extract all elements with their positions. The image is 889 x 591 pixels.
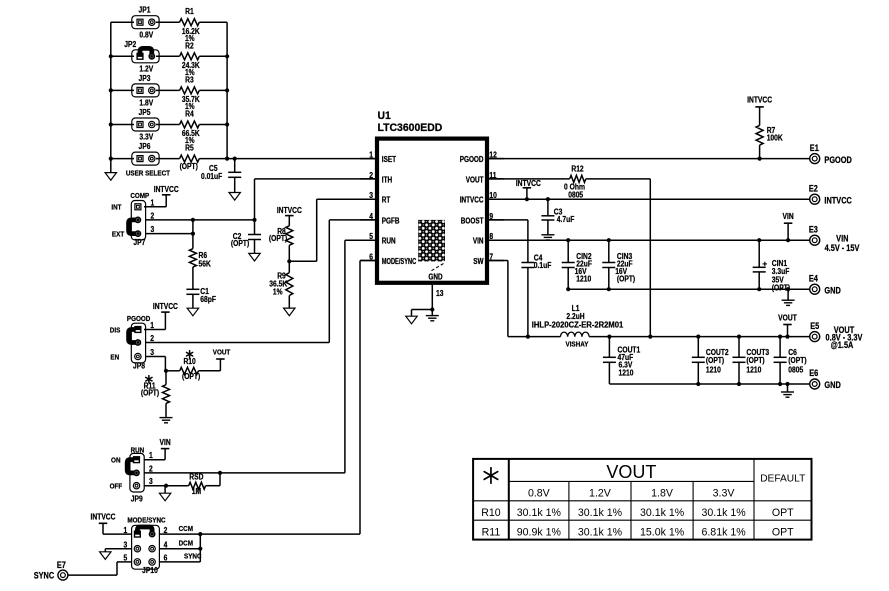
capacitor COUT3 — [738, 337, 740, 358]
svg-text:30.1k 1%: 30.1k 1% — [701, 507, 746, 519]
wire left bus — [110, 22, 112, 165]
wire E7 — [68, 574, 117, 576]
svg-text:RUN: RUN — [131, 447, 145, 455]
jumper JP10 — [132, 525, 160, 569]
svg-text:R10: R10 — [481, 507, 501, 519]
wire BOOST — [487, 219, 528, 221]
svg-text:@1.5A: @1.5A — [831, 340, 854, 350]
svg-text:4.5V - 15V: 4.5V - 15V — [825, 243, 860, 253]
svg-text:MODE/SYNC: MODE/SYNC — [127, 517, 165, 525]
wire JP8 pin2 — [146, 342, 330, 344]
wire PGOOD — [487, 158, 809, 160]
svg-text:0805: 0805 — [568, 190, 583, 200]
svg-text:USER SELECT: USER SELECT — [126, 170, 171, 178]
resistor R5 — [180, 155, 200, 162]
wire JP9 pin3 — [144, 485, 166, 487]
resistor R10 — [166, 370, 180, 372]
wire VOUT drop — [586, 178, 651, 180]
svg-text:VIN: VIN — [473, 237, 484, 246]
svg-text:GND: GND — [824, 381, 840, 391]
ground — [187, 308, 198, 316]
wire JP10 pin1 — [103, 533, 131, 535]
ground — [110, 165, 112, 173]
ground — [431, 310, 433, 316]
svg-text:JP1: JP1 — [139, 5, 151, 15]
svg-text:(OPT): (OPT) — [180, 162, 199, 172]
svg-text:30.1k 1%: 30.1k 1% — [517, 507, 562, 519]
jumper JP7 — [131, 201, 145, 240]
svg-text:RUN: RUN — [382, 237, 396, 246]
svg-text:E2: E2 — [809, 184, 818, 194]
svg-text:OPT: OPT — [772, 526, 794, 538]
ground — [159, 493, 170, 501]
svg-text:IHLP-2020CZ-ER-2R2M01: IHLP-2020CZ-ER-2R2M01 — [532, 320, 624, 329]
wire JP8 pin1 — [144, 329, 165, 331]
svg-text:EN: EN — [110, 354, 119, 362]
svg-text:VOUT: VOUT — [606, 462, 656, 482]
capacitor CIN2 — [567, 240, 569, 262]
svg-text:INTVCC: INTVCC — [153, 301, 179, 311]
svg-text:1.8V: 1.8V — [651, 488, 674, 500]
ground — [787, 384, 789, 392]
svg-text:2: 2 — [151, 211, 155, 221]
svg-text:(OPT): (OPT) — [141, 388, 160, 398]
svg-text:30.1k 1%: 30.1k 1% — [640, 507, 685, 519]
svg-text:1210: 1210 — [576, 274, 591, 284]
svg-text:ISET: ISET — [382, 155, 397, 164]
svg-text:PGOOD: PGOOD — [127, 315, 150, 323]
svg-text:6.81k 1%: 6.81k 1% — [701, 526, 746, 538]
svg-text:68pF: 68pF — [200, 294, 216, 304]
capacitor CIN3 — [608, 240, 610, 262]
svg-text:JP7: JP7 — [133, 238, 145, 248]
resistor R8 — [286, 226, 293, 246]
svg-text:GND: GND — [824, 286, 840, 296]
resistor R11 — [165, 371, 167, 385]
svg-text:1: 1 — [369, 150, 373, 160]
svg-text:1210: 1210 — [746, 365, 761, 375]
wire JP9 pin1 — [144, 459, 165, 461]
svg-text:R12: R12 — [571, 164, 583, 174]
svg-text:2: 2 — [149, 464, 153, 474]
svg-text:U1: U1 — [378, 110, 391, 122]
svg-text:JP6: JP6 — [139, 141, 151, 151]
inductor L1 — [561, 332, 568, 337]
wire SYNC — [159, 561, 200, 563]
svg-text:LTC3600EDD: LTC3600EDD — [378, 122, 443, 134]
svg-text:1.2V: 1.2V — [589, 488, 612, 500]
svg-text:4.7uF: 4.7uF — [557, 214, 575, 224]
svg-text:R4: R4 — [185, 109, 194, 119]
svg-text:3: 3 — [151, 224, 155, 234]
node RT junction — [287, 259, 291, 263]
svg-text:1: 1 — [149, 450, 153, 460]
wire ITH — [255, 178, 378, 180]
jumper JP9 — [130, 453, 144, 492]
svg-text:SW: SW — [473, 257, 484, 266]
svg-text:R11: R11 — [482, 526, 501, 538]
resistor R2 — [180, 53, 200, 60]
svg-text:MODE/SYNC: MODE/SYNC — [382, 258, 416, 266]
svg-text:VOUT: VOUT — [778, 313, 797, 323]
svg-text:15.0k 1%: 15.0k 1% — [640, 526, 685, 538]
svg-text:JP3: JP3 — [139, 73, 151, 83]
wire JP10 pin3 gnd — [105, 548, 131, 550]
wire DCM — [159, 548, 200, 550]
svg-text:PGOOD: PGOOD — [824, 155, 851, 165]
svg-text:RT: RT — [382, 196, 391, 205]
svg-text:0.8V: 0.8V — [528, 488, 551, 500]
wire VOUT row — [589, 336, 809, 338]
svg-text:VIN: VIN — [783, 211, 794, 221]
svg-text:R2: R2 — [185, 41, 194, 51]
svg-text:JP2: JP2 — [124, 40, 136, 50]
resistor R12 — [487, 178, 570, 180]
capacitor COUT2 — [697, 337, 699, 358]
svg-text:0.8V: 0.8V — [139, 30, 153, 40]
svg-text:1: 1 — [151, 198, 155, 208]
wire RUN — [345, 239, 377, 241]
svg-text:30.1k 1%: 30.1k 1% — [578, 507, 623, 519]
svg-text:1M: 1M — [192, 486, 201, 496]
svg-text:VISHAY: VISHAY — [566, 341, 589, 349]
wire SW — [487, 260, 508, 262]
wire JP8 pin3 — [146, 356, 166, 358]
svg-text:1%: 1% — [273, 287, 283, 297]
svg-text:E7: E7 — [57, 561, 66, 571]
svg-text:JP9: JP9 — [131, 494, 143, 504]
power VOUT — [219, 359, 221, 371]
capacitor C5 — [234, 159, 236, 173]
jumper JP6 — [111, 158, 134, 160]
svg-text:(OPT): (OPT) — [617, 274, 636, 284]
svg-text:JP10: JP10 — [142, 566, 158, 576]
svg-text:JP8: JP8 — [133, 361, 145, 371]
resistor R4 — [180, 121, 200, 128]
svg-text:E5: E5 — [810, 321, 819, 331]
resistor R3 — [180, 87, 200, 94]
svg-text:DCM: DCM — [179, 540, 193, 548]
svg-text:INTVCC: INTVCC — [91, 512, 117, 522]
wire COMP pin2 — [146, 219, 255, 221]
svg-text:(OPT): (OPT) — [182, 372, 201, 382]
svg-text:E4: E4 — [809, 274, 818, 284]
svg-text:1210: 1210 — [706, 365, 721, 375]
svg-text:BOOST: BOOST — [461, 217, 484, 226]
ground — [100, 552, 111, 560]
svg-text:3: 3 — [149, 476, 153, 486]
ground — [284, 308, 295, 316]
capacitor C2 — [252, 218, 256, 222]
svg-text:SYNC: SYNC — [184, 553, 202, 561]
capacitor CIN1 — [758, 240, 760, 267]
svg-text:CCM: CCM — [179, 525, 193, 533]
wire CCM — [159, 533, 360, 535]
svg-text:100K: 100K — [767, 133, 784, 143]
jumper JP3 — [111, 89, 134, 91]
U1 exposed pad — [418, 220, 445, 262]
capacitor COUT1 — [608, 337, 610, 358]
pin 13 — [431, 284, 433, 309]
svg-text:3: 3 — [150, 347, 154, 357]
wire GND row — [568, 288, 809, 290]
svg-text:VIN: VIN — [160, 437, 171, 447]
svg-text:ITH: ITH — [382, 176, 392, 185]
svg-text:3.3V: 3.3V — [713, 488, 736, 500]
svg-text:3: 3 — [369, 191, 373, 201]
svg-text:VIN: VIN — [836, 234, 848, 244]
jumper JP2 — [111, 55, 134, 57]
svg-text:INTVCC: INTVCC — [154, 184, 180, 194]
svg-text:ON: ON — [111, 457, 120, 465]
wire PGFB — [329, 219, 377, 221]
jumper JP1 — [111, 21, 134, 23]
svg-text:INTVCC: INTVCC — [747, 95, 773, 105]
capacitor C4 — [521, 262, 534, 264]
svg-text:DIS: DIS — [110, 327, 121, 335]
wire ISET — [227, 158, 377, 160]
wire RT — [289, 260, 316, 262]
svg-text:30.1k 1%: 30.1k 1% — [578, 526, 623, 538]
svg-text:INTVCC: INTVCC — [824, 196, 851, 206]
wire right bus — [226, 22, 228, 158]
svg-text:INTVCC: INTVCC — [277, 205, 303, 215]
wire GND2 row — [609, 383, 809, 385]
svg-text:R3: R3 — [185, 75, 194, 85]
svg-text:90.9k 1%: 90.9k 1% — [517, 526, 562, 538]
svg-text:EXT: EXT — [112, 231, 125, 239]
resistor R7 — [756, 125, 763, 145]
wire COMP pin3 — [146, 233, 193, 235]
ground — [406, 316, 417, 324]
svg-text:GND: GND — [428, 273, 442, 282]
svg-text:0.1uF: 0.1uF — [534, 261, 552, 271]
svg-text:PGOOD: PGOOD — [460, 155, 484, 164]
svg-text:DEFAULT: DEFAULT — [760, 473, 805, 484]
resistor R6 — [189, 249, 196, 267]
jumper JP5 — [111, 124, 134, 126]
capacitor C1 — [192, 267, 194, 289]
resistor R9 — [288, 261, 290, 272]
wire MODE/SYNC — [360, 260, 377, 262]
resistor RSD — [166, 485, 189, 487]
wire INTVCC row — [487, 198, 809, 200]
svg-text:56K: 56K — [199, 259, 212, 269]
svg-text:0.01uF: 0.01uF — [201, 172, 223, 182]
svg-text:(OPT): (OPT) — [269, 233, 288, 243]
capacitor C6 — [779, 337, 781, 358]
svg-text:VOUT: VOUT — [213, 349, 231, 357]
svg-text:OFF: OFF — [110, 483, 123, 491]
svg-text:SYNC: SYNC — [34, 571, 55, 581]
wire pin13 gnd — [412, 309, 433, 311]
table VOUT resistor options — [473, 459, 811, 540]
svg-text:(OPT): (OPT) — [231, 238, 250, 248]
ground — [787, 289, 789, 300]
svg-text:R1: R1 — [185, 7, 194, 17]
svg-text:INTVCC: INTVCC — [460, 196, 484, 205]
svg-text:INTVCC: INTVCC — [516, 178, 542, 188]
svg-text:E3: E3 — [809, 225, 818, 235]
svg-text:E1: E1 — [810, 144, 819, 154]
ground — [541, 234, 554, 236]
svg-text:VOUT: VOUT — [466, 176, 484, 185]
svg-text:2: 2 — [150, 333, 154, 343]
ground — [229, 193, 240, 201]
resistor R1 — [180, 19, 200, 26]
svg-text:E6: E6 — [809, 369, 818, 379]
svg-text:OPT: OPT — [772, 507, 794, 519]
svg-text:1: 1 — [123, 525, 127, 535]
jumper JP8 — [131, 323, 145, 363]
svg-text:INT: INT — [111, 204, 122, 212]
ground — [160, 417, 173, 419]
svg-text:R10: R10 — [183, 356, 195, 366]
svg-text:R5: R5 — [185, 143, 194, 153]
wire VIN row — [487, 239, 809, 241]
svg-text:COMP: COMP — [130, 192, 149, 200]
svg-text:1210: 1210 — [619, 368, 634, 378]
capacitor C3 — [547, 199, 549, 216]
wire JP9 pin2 — [144, 472, 345, 474]
svg-text:1: 1 — [150, 320, 154, 330]
IC U1 LTC3600EDD — [377, 139, 487, 283]
svg-text:JP5: JP5 — [139, 107, 151, 117]
wire JP7 pin1 — [144, 206, 166, 208]
svg-text:PGFB: PGFB — [382, 217, 400, 226]
svg-text:13: 13 — [436, 288, 443, 298]
svg-text:0805: 0805 — [788, 365, 803, 375]
ground — [249, 253, 260, 261]
svg-text:RSD: RSD — [189, 472, 204, 482]
